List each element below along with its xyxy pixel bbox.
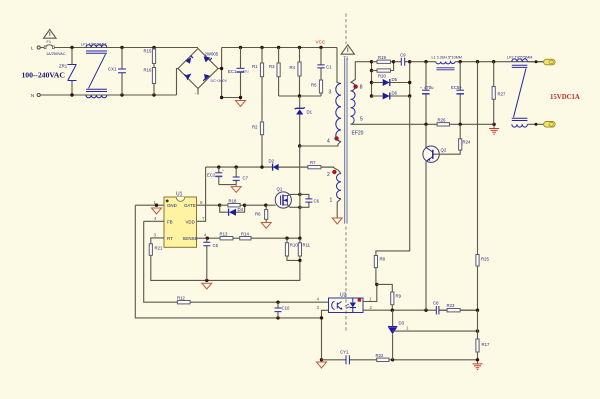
bridge diode bottom-right	[203, 74, 210, 81]
resistor R1	[261, 48, 263, 64]
earth ground right	[489, 126, 499, 134]
resistor R11	[299, 238, 301, 243]
node dot emitter	[424, 309, 427, 312]
wire gate	[245, 204, 276, 206]
transformer core	[345, 58, 347, 224]
node dots CX1	[120, 46, 123, 49]
svg-text:U1: U1	[176, 192, 183, 198]
wire DC+ riser	[218, 48, 222, 98]
node dot sense	[298, 237, 301, 240]
svg-text:Q1: Q1	[277, 187, 283, 192]
node dot opto gnd	[320, 358, 323, 361]
terminal -	[535, 123, 538, 126]
svg-text:RT: RT	[167, 236, 173, 241]
vcc rail	[206, 166, 334, 168]
wire collector	[425, 124, 427, 147]
ground rail dots	[424, 123, 427, 126]
diode D4 parallel loop	[220, 205, 245, 212]
isolation dashed line top	[345, 14, 347, 45]
wire R2 to vcc line	[261, 135, 263, 167]
earth ground bottom	[473, 362, 483, 370]
resistor R7	[308, 166, 321, 169]
svg-text:R21: R21	[155, 246, 163, 251]
resistor R16	[153, 64, 155, 68]
svg-text:R14: R14	[241, 232, 249, 237]
capacitor CY1	[346, 355, 349, 364]
diode D2	[273, 164, 308, 171]
opto LED	[346, 299, 356, 313]
node dot R4	[298, 46, 301, 49]
svg-text:C5: C5	[213, 243, 219, 248]
zener D1	[295, 96, 305, 146]
capacitor EC4	[424, 60, 427, 63]
svg-text:EF20: EF20	[352, 131, 364, 137]
svg-text:470u: 470u	[424, 85, 434, 90]
capacitor C7	[235, 165, 238, 168]
svg-text:C10: C10	[282, 306, 290, 311]
svg-text:R4: R4	[290, 65, 296, 70]
svg-text:GND: GND	[167, 203, 177, 208]
resistor R9	[391, 292, 394, 305]
node dots rail	[476, 60, 479, 63]
wire FB pin	[144, 220, 164, 222]
wire source	[288, 205, 300, 207]
resistor R24	[459, 139, 462, 150]
wire DC- to EC1	[222, 97, 241, 99]
svg-text:L1 3.3UH 5*10MM: L1 3.3UH 5*10MM	[432, 56, 462, 60]
IC U1 body	[164, 197, 197, 247]
svg-text:D5: D5	[392, 77, 398, 82]
svg-text:R2: R2	[252, 125, 258, 130]
transformer aux winding	[336, 174, 341, 199]
svg-text:+: +	[420, 86, 422, 90]
svg-text:R19: R19	[378, 55, 386, 60]
svg-text:ZR1: ZR1	[59, 64, 68, 69]
resistor R19	[372, 61, 378, 63]
resistor R20	[372, 70, 378, 72]
resistor R21	[149, 244, 152, 256]
resistor R26	[437, 123, 449, 126]
svg-text:D6: D6	[392, 91, 398, 96]
vdd riser	[197, 167, 206, 221]
resistor R25	[476, 255, 479, 267]
capacitor C9	[394, 58, 410, 66]
svg-text:EC1: EC1	[228, 69, 237, 74]
resistor R5	[319, 80, 322, 93]
resistor R4	[299, 48, 301, 63]
wire pin5	[351, 123, 495, 125]
svg-text:R13: R13	[220, 232, 228, 237]
wire	[40, 47, 44, 49]
wire GATE pin	[197, 204, 220, 206]
svg-text:R25: R25	[481, 257, 489, 262]
wire R1-R2	[261, 77, 263, 122]
ground EC1	[236, 99, 246, 106]
svg-text:1A/250VAC: 1A/250VAC	[46, 52, 66, 56]
bridge diode bottom-left	[184, 74, 191, 81]
svg-text:N: N	[31, 93, 34, 98]
terminal +	[535, 60, 538, 63]
svg-text:C9: C9	[400, 53, 406, 58]
wire pin4	[338, 142, 341, 145]
diode D6	[372, 62, 410, 96]
secondary gnd line	[322, 359, 478, 361]
capacitor EC1	[239, 46, 242, 49]
svg-text:R3: R3	[269, 64, 275, 69]
node dot C5 bottom	[205, 279, 208, 282]
node dots divider	[476, 309, 479, 312]
wire aux pin1	[337, 199, 341, 218]
wire AC N rail	[40, 94, 176, 96]
svg-text:D1: D1	[307, 110, 313, 115]
resistor R14	[240, 237, 251, 240]
svg-text:R6: R6	[255, 212, 261, 217]
svg-text:R27: R27	[498, 92, 506, 97]
svg-text:R16: R16	[144, 68, 152, 73]
svg-text:F1: F1	[47, 40, 51, 44]
wire RT pin	[151, 238, 164, 244]
svg-text:+: +	[222, 169, 224, 173]
wire to terminals	[527, 62, 543, 125]
svg-text:R26: R26	[438, 118, 446, 123]
resistor R2	[260, 122, 263, 135]
capacitor CX1	[118, 48, 126, 96]
node dot TL431 anode	[391, 358, 394, 361]
svg-text:SENSE: SENSE	[183, 236, 198, 241]
resistor R13	[220, 237, 233, 240]
resistor R17	[477, 310, 479, 339]
choke LF1	[86, 45, 107, 98]
svg-text:VCC: VCC	[316, 40, 326, 45]
capacitor C1	[317, 48, 324, 81]
svg-text:D2: D2	[269, 159, 275, 164]
svg-text:C1: C1	[326, 65, 332, 70]
resistor R3	[278, 48, 280, 64]
svg-text:C6: C6	[314, 198, 320, 203]
svg-text:LF2 T9*5*5MM: LF2 T9*5*5MM	[507, 55, 532, 59]
wire emitter	[425, 162, 427, 311]
svg-text:R17: R17	[482, 342, 490, 347]
fb pin run	[144, 221, 329, 302]
warning triangle W1	[44, 30, 56, 39]
svg-text:DC+300V: DC+300V	[211, 79, 228, 83]
svg-text:LF1 T9*5*5MM: LF1 T9*5*5MM	[81, 42, 106, 46]
bridge diode top-right	[204, 56, 212, 62]
capacitor EC2	[217, 165, 220, 168]
node dot C1	[319, 46, 322, 49]
divider riser	[477, 62, 479, 311]
wire to pin4	[300, 144, 338, 146]
svg-text:FB: FB	[167, 219, 173, 224]
TL431 D3	[388, 310, 397, 360]
svg-text:5: 5	[360, 117, 363, 123]
wire DC+ rail	[222, 47, 337, 49]
output rail	[410, 61, 544, 63]
capacitor EC5	[459, 60, 462, 63]
svg-text:R11: R11	[303, 243, 311, 248]
riser D-aux feed	[376, 96, 410, 256]
warning triangle W2	[341, 45, 354, 54]
wire drain	[288, 194, 300, 195]
svg-text:R22: R22	[376, 353, 384, 358]
capacitor C10	[276, 301, 279, 304]
svg-text:R18: R18	[229, 199, 237, 204]
TL431 ref wire	[393, 330, 478, 332]
resistor R15	[153, 48, 155, 50]
ground EC2/C7	[231, 185, 241, 193]
node dot	[70, 93, 73, 96]
svg-text:4: 4	[327, 139, 330, 145]
ground C5	[202, 283, 212, 289]
wire bridge bottom stub	[197, 89, 199, 95]
transformer secondary winding	[351, 83, 356, 125]
svg-text:R1: R1	[252, 64, 258, 69]
wire base	[434, 150, 461, 154]
svg-text:C8: C8	[433, 301, 439, 306]
svg-text:47u: 47u	[243, 70, 249, 74]
svg-text:R12: R12	[177, 296, 185, 301]
resistor R18	[228, 204, 240, 207]
mosfet Q1	[275, 192, 291, 208]
isolation dashed line bottom	[345, 227, 347, 333]
wire AC L rail	[54, 47, 198, 49]
wire GND pin	[135, 204, 164, 206]
wire pin3 riser	[337, 48, 341, 84]
ground R6	[261, 223, 271, 229]
node dot	[70, 46, 73, 49]
svg-text:8: 8	[360, 85, 363, 91]
node dot drain top	[298, 144, 301, 147]
capacitor C8	[436, 306, 447, 315]
optocoupler U2	[329, 298, 364, 313]
wire drain bus	[299, 146, 301, 238]
opto phototransistor	[332, 301, 343, 310]
svg-text:EC2: EC2	[207, 173, 216, 178]
svg-text:CX1: CX1	[108, 67, 117, 72]
svg-text:Q2: Q2	[441, 148, 447, 153]
svg-text:R7: R7	[310, 160, 316, 165]
node line	[371, 62, 373, 96]
ground aux	[332, 218, 342, 224]
resistor R23	[447, 309, 460, 312]
resistor R8	[374, 256, 377, 268]
svg-text:EC5+: EC5+	[451, 85, 462, 90]
svg-text:GATE: GATE	[184, 203, 196, 208]
svg-text:R5: R5	[311, 83, 317, 88]
wire pin8	[351, 62, 372, 83]
svg-text:R24: R24	[463, 140, 471, 145]
resistor R27	[493, 62, 495, 87]
node dots R15/R16	[152, 46, 155, 49]
bridge rectifier BD1	[178, 49, 218, 89]
svg-text:100--240VAC: 100--240VAC	[22, 71, 66, 80]
svg-text:R20: R20	[378, 74, 386, 79]
svg-text:15VDC1A: 15VDC1A	[550, 94, 580, 101]
ground opto	[317, 362, 327, 368]
transistor Q2	[423, 146, 439, 162]
svg-text:R10: R10	[290, 243, 298, 248]
wire N to bridge	[177, 69, 179, 96]
svg-text:R23: R23	[447, 303, 455, 308]
wire clamp bottom	[279, 95, 321, 97]
gnd pin run	[135, 205, 321, 318]
svg-text:2W005: 2W005	[205, 52, 219, 57]
varistor ZR1	[68, 48, 77, 96]
wire SENSE pin	[197, 237, 301, 239]
svg-text:1: 1	[330, 198, 333, 204]
svg-text:R9: R9	[396, 294, 402, 299]
opto pin wires	[322, 310, 329, 360]
svg-text:C7: C7	[243, 176, 249, 181]
svg-text:D4: D4	[238, 207, 244, 212]
node dot R3	[277, 46, 280, 49]
svg-text:VDD: VDD	[186, 219, 195, 224]
wire shunt bottoms	[287, 256, 300, 280]
svg-text:D3: D3	[399, 321, 405, 326]
resistor R12	[177, 301, 190, 304]
capacitor C6 loop	[300, 194, 309, 207]
diode D5	[372, 82, 410, 84]
capacitor C5	[203, 238, 210, 280]
svg-text:U2: U2	[340, 293, 347, 299]
resistor R6 gate pulldown	[265, 205, 267, 209]
inductor L1	[436, 62, 455, 70]
resistor R22	[377, 358, 389, 361]
wire R21 bottom to gnd line	[151, 255, 300, 280]
svg-text:CY1: CY1	[340, 350, 349, 355]
choke LF2	[512, 59, 528, 127]
fuse F1	[44, 45, 54, 49]
wire EC2/C7 gnd	[219, 184, 236, 186]
transformer T1 primary winding	[336, 84, 341, 142]
svg-text:2: 2	[327, 172, 330, 178]
ground GND pin	[152, 208, 162, 214]
wire to R9	[377, 284, 393, 292]
bridge diode top-left	[185, 56, 193, 64]
node dot R1	[260, 46, 263, 49]
svg-text:R15: R15	[144, 49, 152, 54]
svg-text:3: 3	[329, 90, 332, 96]
svg-text:R8: R8	[380, 257, 386, 262]
wire aux pin2	[333, 167, 341, 173]
resistor R10	[286, 238, 288, 243]
